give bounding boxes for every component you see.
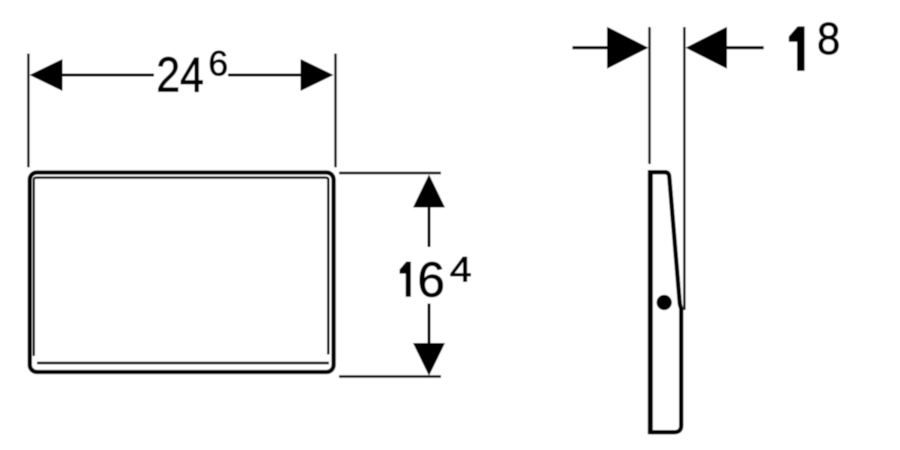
dimension 16.4: value digit 1 (drawn, helvetica style without foot) xyxy=(400,262,411,296)
side view: plate profile (top edge, slanted face, lower edge, bottom) xyxy=(650,172,681,432)
dimension 16.4: top extension line xyxy=(339,172,441,174)
svg-text:6: 6 xyxy=(208,44,228,84)
dimension 24.6: dimension line left segment xyxy=(62,74,154,77)
side view: plate back (left) edge xyxy=(648,170,653,434)
dimension 16.4: dimension line lower segment xyxy=(428,304,431,344)
dimension 1.8: right extension line xyxy=(683,27,685,310)
front view: plate inner edge (top/left/right) xyxy=(34,178,329,356)
dimension 16.4: dimension line upper segment xyxy=(428,207,431,247)
svg-text:24: 24 xyxy=(156,47,204,103)
svg-text:8: 8 xyxy=(817,13,840,64)
dimension 16.4: bottom extension line xyxy=(339,375,441,377)
dimension 24.6: left extension line xyxy=(27,54,29,168)
dimension 1.8: right arrowhead pointing left xyxy=(686,27,728,69)
dimension 1.8: left extension line xyxy=(648,27,650,164)
dimension 24.6: dimension line right segment xyxy=(228,74,301,77)
dimension 24.6: value text 24 xyxy=(156,47,204,103)
front view: plate inner bottom edge line xyxy=(37,362,329,364)
dimension 24.6: right extension line xyxy=(334,54,336,168)
dimension 1.8: left leader line xyxy=(572,46,608,49)
front view: plate outer outline xyxy=(30,173,334,373)
dimension 24.6: left arrowhead xyxy=(30,59,63,91)
dimension 1.8: value digit 1 (drawn, helvetica style without foot) xyxy=(789,27,804,71)
svg-text:4: 4 xyxy=(450,249,472,289)
dimension 24.6: right arrowhead xyxy=(301,59,334,91)
dimension 1.8: right leader line xyxy=(726,46,764,49)
dimension 1.8: superscript 8 xyxy=(817,13,840,64)
svg-text:6: 6 xyxy=(417,252,445,307)
dimension 1.8: left arrowhead pointing right xyxy=(607,27,649,69)
side view: pivot dot xyxy=(657,295,672,310)
dimension 16.4: top arrowhead xyxy=(413,175,445,208)
dimension 16.4: superscript 4 xyxy=(450,249,472,289)
dimension 16.4: bottom arrowhead xyxy=(413,343,445,376)
